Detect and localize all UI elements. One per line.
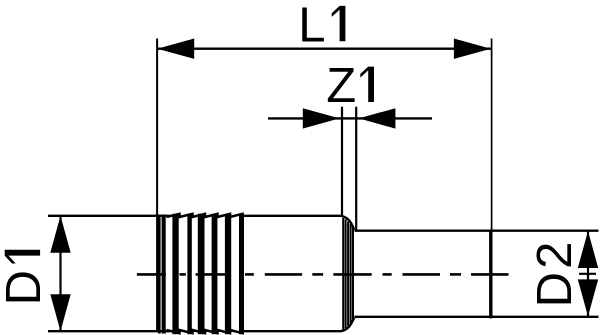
pipe end face xyxy=(489,230,492,319)
small cylinder (pipe end) outline xyxy=(355,231,599,317)
svg-text:D: D xyxy=(0,270,51,305)
centerline (fitting axis, dash-dot) xyxy=(137,273,509,276)
dimension L1 extension line right xyxy=(491,39,493,233)
svg-text:L: L xyxy=(298,0,325,52)
label D2 (rotated) xyxy=(528,238,582,307)
dimension L1 arrowhead right xyxy=(454,39,491,59)
barb ridges (sawtooth top edge) xyxy=(167,214,243,217)
dimension D2 line xyxy=(587,231,589,317)
dimension L1 extension line left xyxy=(156,39,158,332)
dimension Z1 line left tail xyxy=(268,117,341,119)
dimension Z1 line middle connector xyxy=(341,117,357,119)
label D1 (rotated): letter D and digit 1 xyxy=(0,250,51,306)
dimension L1 line xyxy=(157,48,491,50)
dimension Z1 extension line left xyxy=(341,107,343,216)
label L1: digit 1 (custom glyph) xyxy=(332,6,346,41)
dimension Z1 line right tail xyxy=(357,117,432,119)
shoulder fillet bottom xyxy=(341,318,354,332)
dimension D1 line xyxy=(59,216,61,331)
label Z1: letter Z xyxy=(326,59,356,113)
dimension D2 arrowhead down xyxy=(578,279,598,316)
label Z1: digit 1 (custom glyph) xyxy=(360,67,374,102)
svg-text:D2: D2 xyxy=(528,238,582,307)
dimension Z1 extension line right xyxy=(355,107,357,231)
dimension D1 arrowhead up xyxy=(50,216,70,253)
dimension D1 arrowhead down xyxy=(50,294,70,331)
dimension Z1 arrowhead left (points right) xyxy=(303,108,340,128)
dimension D2 arrowhead up xyxy=(578,231,598,268)
dimension L1 arrowhead left xyxy=(157,39,194,59)
barb ridge edge bars xyxy=(172,214,244,334)
fitting body: large press-sleeve section outline xyxy=(48,215,342,334)
dimension Z1 arrowhead right (points left) xyxy=(359,108,396,128)
centerline tick at D2 dimension xyxy=(579,273,596,275)
transition cone edge lines xyxy=(343,218,353,330)
svg-text:Z: Z xyxy=(326,59,356,113)
barb ridges (sawtooth bottom edge) xyxy=(167,330,243,333)
shoulder fillet top (transition large to small diameter) xyxy=(341,216,354,230)
label L1: letter L xyxy=(298,0,325,52)
